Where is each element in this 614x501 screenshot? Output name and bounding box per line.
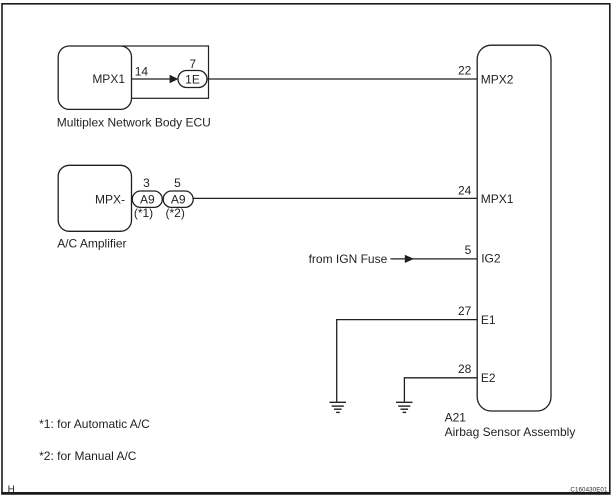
svg-text:3: 3 xyxy=(143,176,150,190)
wire MPX1 to junction 1E xyxy=(132,78,172,80)
svg-text:5: 5 xyxy=(465,243,472,257)
svg-text:C160430E01: C160430E01 xyxy=(570,486,608,493)
ground G2 xyxy=(396,402,413,412)
svg-text:MPX2: MPX2 xyxy=(481,73,514,87)
A/C Amplifier body xyxy=(58,165,131,231)
junction connector 1E oval xyxy=(178,71,207,88)
svg-text:(*2): (*2) xyxy=(166,206,185,220)
arrow IGN feed xyxy=(405,255,414,263)
ECU body (Multiplex Network Body ECU) xyxy=(58,46,131,109)
svg-text:22: 22 xyxy=(458,64,472,78)
wire 1E to MPX2 pin 22 xyxy=(207,78,477,80)
svg-text:MPX1: MPX1 xyxy=(92,72,125,86)
svg-text:27: 27 xyxy=(458,304,472,318)
connector box 1E container xyxy=(123,46,209,98)
svg-text:28: 28 xyxy=(458,362,472,376)
svg-text:MPX-: MPX- xyxy=(95,192,125,206)
airbag sensor assembly body A21 xyxy=(477,45,551,411)
junction A9 oval 1 xyxy=(132,191,162,207)
svg-text:(*1): (*1) xyxy=(134,206,153,220)
svg-text:14: 14 xyxy=(135,64,149,78)
svg-text:A9: A9 xyxy=(171,193,186,207)
svg-text:A/C Amplifier: A/C Amplifier xyxy=(57,236,126,250)
svg-text:Airbag Sensor Assembly: Airbag Sensor Assembly xyxy=(445,425,576,439)
svg-text:1E: 1E xyxy=(185,72,200,86)
svg-text:*2: for Manual A/C: *2: for Manual A/C xyxy=(39,449,137,463)
wire E1 pin 27 to ground xyxy=(337,320,478,402)
arrow into junction 1E xyxy=(170,75,179,83)
ground G1 xyxy=(330,402,347,412)
wire IGN fuse to IG2 pin 5 xyxy=(391,258,478,260)
svg-text:H: H xyxy=(8,485,15,496)
svg-text:from IGN Fuse: from IGN Fuse xyxy=(309,252,388,266)
svg-text:*1: for Automatic A/C: *1: for Automatic A/C xyxy=(39,417,150,431)
svg-text:7: 7 xyxy=(189,57,196,71)
svg-text:5: 5 xyxy=(174,176,181,190)
svg-text:E2: E2 xyxy=(481,371,496,385)
svg-text:MPX1: MPX1 xyxy=(481,192,514,206)
svg-text:24: 24 xyxy=(458,183,472,197)
junction A9 oval 2 xyxy=(163,191,193,207)
svg-text:E1: E1 xyxy=(481,313,496,327)
svg-text:Multiplex Network Body ECU: Multiplex Network Body ECU xyxy=(57,116,211,130)
svg-text:A9: A9 xyxy=(140,193,155,207)
wire A9 to MPX1 pin 24 xyxy=(193,197,477,199)
svg-text:IG2: IG2 xyxy=(481,251,501,265)
wire E2 pin 28 to ground xyxy=(404,378,477,402)
svg-text:A21: A21 xyxy=(445,410,467,424)
